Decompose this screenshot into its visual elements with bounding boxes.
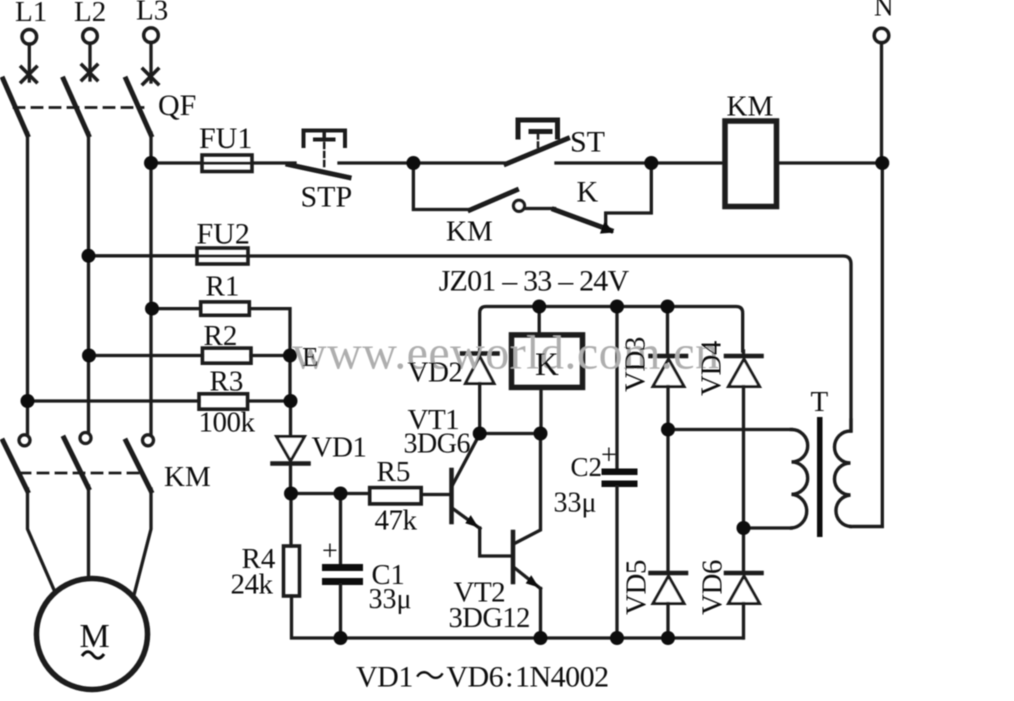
svg-text:L1: L1 <box>15 0 47 28</box>
svg-text:VD5: VD5 <box>621 560 653 615</box>
svg-text:+: + <box>601 440 617 471</box>
svg-text:N: N <box>874 0 894 22</box>
svg-text:STP: STP <box>301 181 353 214</box>
svg-text:T: T <box>811 386 829 418</box>
svg-text:VD3: VD3 <box>620 337 652 392</box>
svg-text:KM: KM <box>164 461 211 493</box>
svg-text:47k: 47k <box>375 505 418 537</box>
svg-text:www.eeworld.com.cn: www.eeworld.com.cn <box>292 327 720 380</box>
svg-text:E: E <box>302 342 319 372</box>
svg-text:K: K <box>535 347 559 383</box>
svg-text:QF: QF <box>158 89 196 122</box>
svg-text:FU1: FU1 <box>199 122 252 155</box>
svg-text:VD4: VD4 <box>696 340 728 396</box>
svg-text:VD2: VD2 <box>408 357 463 389</box>
svg-text:R5: R5 <box>377 456 411 488</box>
svg-text:3DG12: 3DG12 <box>449 603 530 634</box>
svg-text:JZ01 – 33 – 24V: JZ01 – 33 – 24V <box>439 265 630 298</box>
svg-text:R3: R3 <box>210 366 244 398</box>
svg-text:KM: KM <box>446 216 493 248</box>
svg-text:L3: L3 <box>136 0 168 27</box>
svg-text:33μ: 33μ <box>369 584 412 615</box>
svg-text:VD1 ～ VD6 : 1N4002: VD1 ～ VD6 : 1N4002 <box>356 661 609 694</box>
svg-text:FU2: FU2 <box>197 218 250 251</box>
svg-text:KM: KM <box>727 91 774 123</box>
svg-text:+: + <box>322 536 338 567</box>
svg-text:VD6: VD6 <box>697 560 729 615</box>
svg-text:K: K <box>577 176 599 209</box>
svg-text:3DG6: 3DG6 <box>404 429 471 460</box>
svg-text:M: M <box>80 618 110 655</box>
svg-text:L2: L2 <box>74 0 106 28</box>
svg-text:100k: 100k <box>199 407 256 439</box>
svg-text:VD1: VD1 <box>312 432 367 464</box>
svg-text:C2: C2 <box>571 452 603 482</box>
svg-text:33μ: 33μ <box>554 488 597 519</box>
svg-text:R1: R1 <box>206 271 240 303</box>
svg-text:ST: ST <box>570 126 605 159</box>
svg-text:R2: R2 <box>204 320 238 352</box>
svg-text:24k: 24k <box>231 569 274 601</box>
